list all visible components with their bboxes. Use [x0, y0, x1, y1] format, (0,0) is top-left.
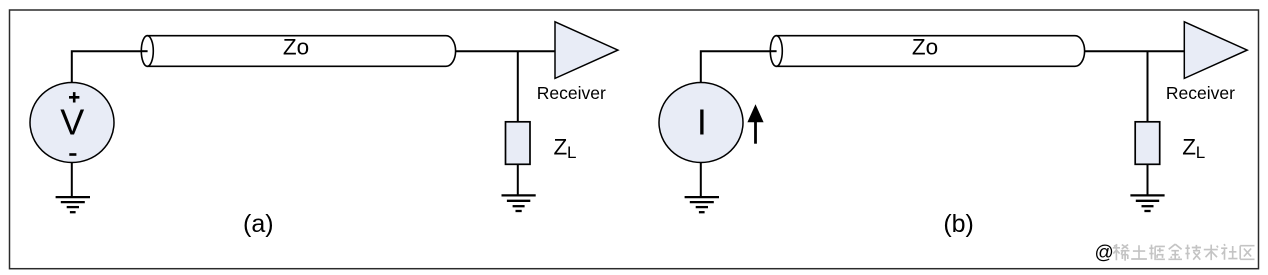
- wire: load tap vertical (b): [1147, 51, 1149, 122]
- svg-text:L: L: [1196, 143, 1205, 162]
- wire: I1 top to transmission line: [701, 51, 777, 82]
- svg-text:L: L: [567, 143, 576, 162]
- receiver amplifier (b): [1184, 22, 1247, 79]
- wire: V1 to ground: [71, 163, 73, 198]
- ground under V1: [56, 197, 90, 212]
- svg-text:@: @: [1095, 242, 1114, 263]
- svg-text:I: I: [697, 102, 707, 143]
- ground under I1: [685, 197, 719, 212]
- watermark: [1095, 242, 1255, 263]
- svg-text:Zo: Zo: [912, 35, 938, 60]
- svg-text:Receiver: Receiver: [1166, 83, 1235, 103]
- voltage source V1: [30, 83, 114, 163]
- transmission line Zo (a): [141, 36, 455, 67]
- load ZL (a): [506, 122, 531, 165]
- wire: ZL to ground (b): [1147, 164, 1149, 196]
- svg-text:Receiver: Receiver: [537, 83, 606, 103]
- current source I1: [659, 83, 743, 163]
- ground under ZL (a): [502, 195, 536, 211]
- svg-text:(a): (a): [243, 210, 274, 238]
- current direction arrow: [747, 104, 763, 144]
- load ZL (b): [1135, 122, 1160, 165]
- wire: V1 top to transmission line: [72, 51, 148, 82]
- svg-text:Z: Z: [554, 134, 568, 159]
- svg-text:V: V: [60, 102, 84, 143]
- wire: ZL to ground (a): [517, 164, 519, 196]
- wire: load tap vertical (a): [517, 51, 519, 122]
- svg-text:Z: Z: [1182, 134, 1196, 159]
- svg-text:(b): (b): [943, 210, 974, 238]
- svg-text:Zo: Zo: [283, 35, 309, 60]
- wire: transmission line to receiver (b): [1085, 50, 1185, 52]
- ground under ZL (b): [1130, 195, 1164, 211]
- wire: I1 to ground: [700, 163, 702, 198]
- receiver amplifier (a): [555, 22, 618, 79]
- wire: transmission line to receiver (a): [456, 50, 556, 52]
- transmission line Zo (b): [770, 36, 1084, 67]
